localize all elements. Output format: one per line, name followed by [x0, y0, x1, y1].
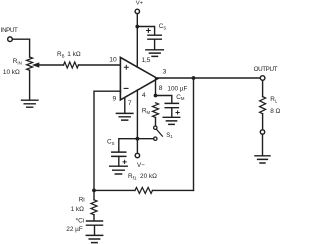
svg-text:9: 9	[113, 95, 117, 102]
svg-text:S1: S1	[166, 132, 173, 139]
svg-text:RM: RM	[142, 107, 151, 114]
resistor Ri	[91, 200, 97, 215]
svg-text:3: 3	[163, 69, 167, 76]
wire V+ to op-amp pins 1,5	[136, 14, 138, 67]
wire R_L to lower terminal	[262, 114, 264, 130]
ground (R_L)	[255, 156, 270, 163]
junction V+ / C_S	[135, 25, 139, 29]
svg-text:RIN: RIN	[13, 58, 22, 65]
wiper arrow	[33, 63, 39, 67]
junction pin4 / C_S / switch / V-	[136, 137, 140, 141]
capacitor C_S (top)	[148, 35, 161, 39]
wire C_M to ground	[171, 108, 173, 117]
svg-text:8 Ω: 8 Ω	[270, 108, 280, 115]
svg-text:1 kΩ: 1 kΩ	[71, 206, 85, 213]
potentiometer R_IN	[27, 57, 33, 70]
svg-text:10 kΩ: 10 kΩ	[3, 69, 20, 76]
svg-text:22 µF: 22 µF	[66, 226, 83, 233]
wire R_B to pin 10	[79, 64, 120, 66]
input terminal	[8, 37, 13, 42]
svg-text:CM: CM	[176, 94, 185, 101]
junction feedback / Ri	[92, 189, 96, 193]
svg-text:OUTPUT: OUTPUT	[254, 66, 278, 73]
wire pin 8 down	[155, 79, 157, 96]
wire wiper to R_B	[38, 64, 64, 66]
svg-text:CS: CS	[107, 139, 115, 146]
capacitor Ci	[87, 221, 103, 225]
svg-text:V+: V+	[136, 0, 144, 6]
wire node to Ri	[93, 190, 95, 199]
ground (Ci)	[86, 235, 102, 242]
wire junction to C_S bottom	[119, 139, 138, 152]
svg-text:7: 7	[128, 100, 132, 107]
svg-text:1 kΩ: 1 kΩ	[67, 51, 81, 58]
svg-text:*Ci: *Ci	[76, 217, 85, 224]
wire pot bottom to ground	[29, 70, 31, 100]
op-amp minus sign	[124, 87, 128, 89]
svg-text:10: 10	[109, 56, 117, 63]
wire R_M to switch	[155, 118, 157, 126]
resistor R_L	[260, 97, 266, 114]
junction pin8 / R_M / C_M	[154, 94, 158, 98]
wire R_f1 to feedback vertical	[153, 189, 194, 191]
wire input terminal to potentiometer top	[12, 39, 29, 57]
resistor R_M	[153, 103, 159, 118]
junction output / feedback	[192, 76, 196, 80]
resistor R_f1	[135, 187, 153, 193]
plus mark C_M	[176, 111, 179, 114]
ground (pin 7)	[116, 113, 132, 120]
svg-text:Ri: Ri	[79, 196, 85, 203]
op-amp plus sign	[124, 65, 128, 69]
svg-text:CS: CS	[159, 23, 167, 30]
svg-text:RL: RL	[270, 96, 278, 103]
svg-text:V−: V−	[137, 162, 145, 169]
OUTPUT terminal	[260, 76, 265, 81]
plus mark C_S top	[147, 29, 151, 33]
wire feedback node to R_f1	[94, 189, 135, 191]
switch S_1 upper contact	[154, 126, 157, 129]
resistor R_B	[64, 62, 79, 68]
wire terminal to ground	[262, 134, 264, 155]
svg-text:Rf1 20 kΩ: Rf1 20 kΩ	[128, 173, 157, 181]
svg-text:INPUT: INPUT	[1, 27, 18, 34]
svg-text:8: 8	[159, 85, 163, 92]
ground (input pot)	[22, 100, 38, 107]
capacitor C_M	[165, 103, 178, 107]
wire pin 9 to feedback node	[94, 91, 121, 190]
wire Ci to ground	[94, 225, 96, 235]
svg-text:4: 4	[142, 92, 146, 99]
capacitor C_S (bottom)	[112, 152, 126, 156]
V- terminal	[135, 153, 139, 157]
ground (C_S bottom)	[110, 166, 128, 174]
wire feedback vertical (output to R_f1)	[193, 78, 195, 190]
wire pin 4 down	[136, 90, 138, 153]
plus mark C_S bottom	[123, 160, 126, 163]
wire OUTPUT to R_L	[262, 80, 264, 96]
R_L lower terminal	[260, 130, 264, 134]
svg-text:100 µF: 100 µF	[167, 86, 187, 93]
svg-text:RB: RB	[57, 51, 65, 58]
wire op-amp output to OUTPUT terminal	[158, 77, 261, 79]
wire V+ node to C_S	[137, 27, 154, 35]
wire C_S to ground	[154, 39, 156, 49]
wire junction to C_M	[156, 96, 172, 103]
wire pin 7 to ground	[124, 98, 126, 114]
op-amp U1	[120, 57, 157, 100]
switch S_1 lower contact	[154, 137, 157, 140]
ground (C_S top)	[146, 50, 163, 57]
wire C_S bottom to ground	[118, 156, 120, 166]
switch S_1 blade	[157, 129, 163, 136]
svg-text:1,5: 1,5	[142, 57, 151, 64]
wire junction to switch	[137, 138, 153, 140]
V+ terminal	[135, 9, 139, 13]
wire Ri to Ci	[93, 215, 95, 221]
ground (C_M)	[163, 117, 180, 124]
